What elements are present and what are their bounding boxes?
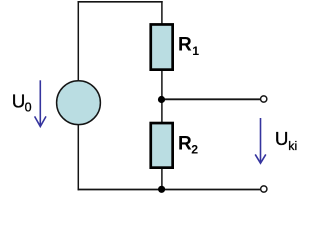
bottom node junction dot — [158, 186, 165, 193]
wire R2 bottom to bottom rail — [161, 168, 163, 189]
resistor R2 — [151, 123, 173, 168]
svg-text:ki: ki — [288, 139, 297, 153]
svg-text:R: R — [178, 34, 192, 55]
resistor R1 — [151, 24, 173, 69]
node A junction dot — [158, 96, 165, 103]
wire right vertical into R1 — [161, 1, 163, 24]
svg-text:U: U — [275, 128, 289, 149]
svg-text:U: U — [12, 90, 26, 111]
arrow Uki direction — [255, 118, 266, 163]
svg-text:2: 2 — [191, 143, 198, 157]
arrow U0 direction — [35, 80, 46, 126]
wire top horizontal — [78, 1, 163, 3]
svg-text:0: 0 — [25, 100, 32, 114]
output terminal bottom (open circle) — [261, 186, 267, 192]
wire node A to output terminal — [162, 98, 260, 100]
voltage source U0 — [57, 81, 101, 125]
svg-text:1: 1 — [192, 44, 199, 58]
output terminal top (open circle) — [261, 96, 267, 102]
wire bottom rail — [78, 189, 261, 191]
wire left vertical upper — [77, 1, 79, 81]
wire R1 bottom to R2 top through node A — [161, 70, 163, 123]
wire left vertical lower — [77, 125, 79, 191]
svg-text:R: R — [178, 134, 192, 155]
